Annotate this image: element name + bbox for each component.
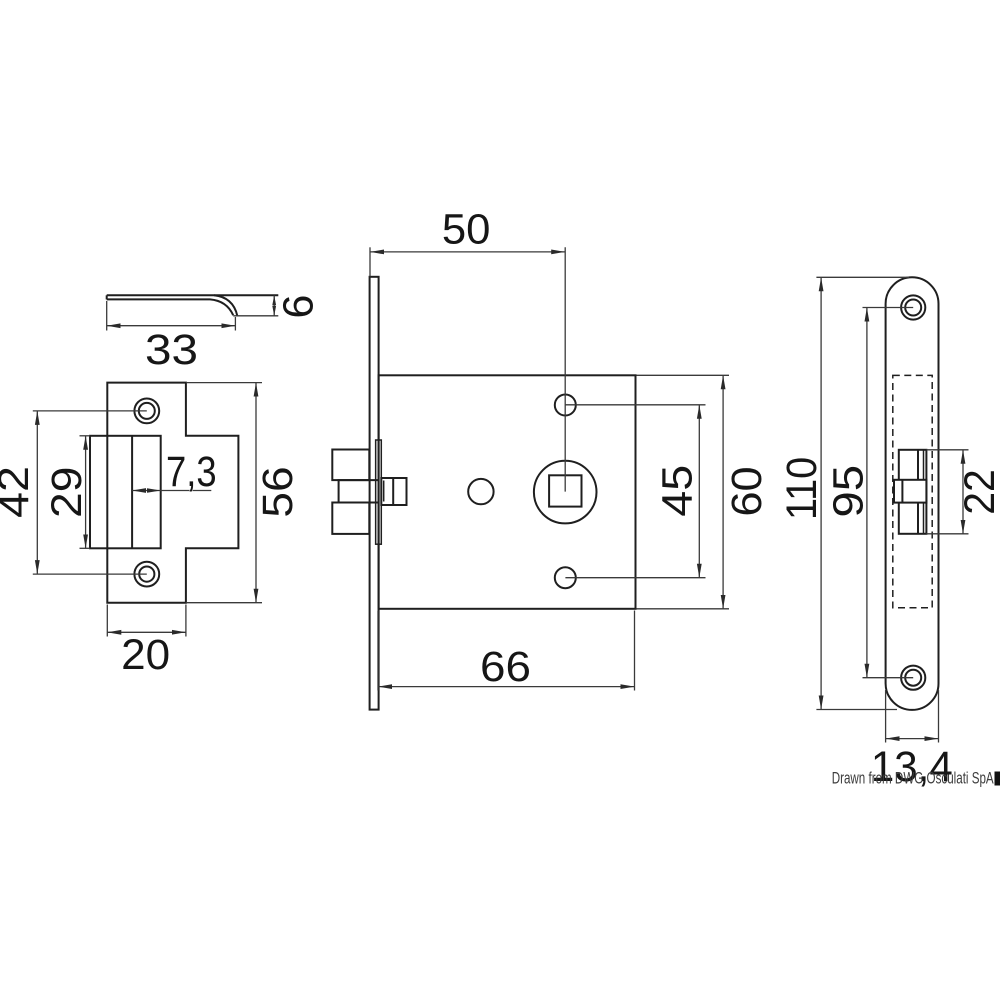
bolt tail neck line <box>383 481 385 502</box>
faceplate side view <box>370 277 379 710</box>
svg-text:95: 95 <box>825 465 873 518</box>
footer credit text <box>832 770 994 788</box>
dimension 56 extension bottom <box>186 602 262 604</box>
dimension 95 extension bottom <box>863 677 914 679</box>
lock body hidden outline (dashed) <box>893 375 932 607</box>
svg-text:50: 50 <box>442 206 491 254</box>
svg-text:45: 45 <box>654 465 702 517</box>
lip bottom surface line and inner bend curve <box>107 299 234 315</box>
bolt tail divider <box>392 478 394 505</box>
dimension 95 extension top <box>863 307 914 309</box>
dimension 66 line <box>378 686 635 688</box>
dimension 95 line <box>866 308 868 678</box>
svg-text:20: 20 <box>121 631 170 679</box>
dimension 6 line <box>272 295 276 316</box>
spindle square hole <box>549 475 581 506</box>
dimension 42 extension top <box>33 410 147 412</box>
dimension 33 extension left <box>106 301 108 331</box>
latch bolt middle block <box>339 480 379 502</box>
dimension 13,4 extension left <box>885 690 887 743</box>
dimension 60 extension top <box>637 374 730 376</box>
svg-text:29: 29 <box>43 467 91 518</box>
dimension 33 line <box>107 325 236 327</box>
dimension 60 text <box>723 466 771 516</box>
dimension 7,3 line <box>132 490 211 492</box>
dimension 22 text <box>956 469 1000 515</box>
dimension 29 extension bottom <box>80 547 91 549</box>
dimension 66 text <box>480 643 531 691</box>
dimension 29 text <box>43 467 91 518</box>
svg-text:110: 110 <box>778 457 826 520</box>
dimension 50 text <box>442 206 491 254</box>
fixing hole top <box>555 395 576 416</box>
dimension 66 extension right <box>634 611 636 691</box>
svg-text:66: 66 <box>480 643 531 691</box>
svg-text:7,3: 7,3 <box>166 448 217 496</box>
faceplate screw hole bottom inner <box>905 670 921 686</box>
dimension 6 text <box>274 295 322 319</box>
dimension 110 extension bottom <box>816 709 897 711</box>
dimension 20 extension right <box>185 605 187 637</box>
strike hole rectangle <box>90 436 161 549</box>
dimension 60 line <box>722 375 724 609</box>
lock case front wall strip <box>376 440 382 544</box>
stop pin hole <box>468 479 493 504</box>
dimension 95 text <box>825 465 873 518</box>
dimension 45 line <box>698 405 700 578</box>
dimension 13,4 text <box>871 743 953 791</box>
screw hole top inner <box>139 403 155 419</box>
svg-text:56: 56 <box>254 466 302 517</box>
dimension 50 line <box>370 251 565 253</box>
svg-text:42: 42 <box>0 466 38 518</box>
svg-text:Drawn from DWG Osculati SpA: Drawn from DWG Osculati SpA <box>832 770 994 788</box>
dimension 60 extension bottom <box>637 608 730 610</box>
strike tab fold line <box>131 436 133 549</box>
dimension 29 line <box>85 436 87 549</box>
dimension 110 extension top <box>816 276 909 278</box>
dimension 33 text <box>145 326 198 374</box>
fixing hole bottom <box>555 567 576 588</box>
screw hole bottom inner <box>139 567 154 582</box>
strike plate outline <box>107 383 238 603</box>
dimension 56 text <box>254 466 302 517</box>
dimension 50 extension left <box>369 247 371 276</box>
dimension 42 line <box>36 411 38 574</box>
dimension 29 extension top <box>80 435 91 437</box>
dimension 20 text <box>121 631 170 679</box>
latch bolt front outline <box>899 450 927 534</box>
faceplate screw hole bottom outer <box>901 666 925 690</box>
dimension 13,4 line <box>886 738 939 740</box>
latch bolt lower block <box>332 503 369 534</box>
lip top surface line <box>107 294 279 296</box>
svg-text:33: 33 <box>145 326 198 374</box>
latch bolt middle block front <box>894 480 926 503</box>
dimension 22 extension top <box>926 449 968 451</box>
latch bolt divider line 2 <box>923 450 925 534</box>
dimension 7,3 right arrow <box>147 488 161 493</box>
dimension 110 line <box>820 277 822 709</box>
svg-text:60: 60 <box>723 466 771 516</box>
dimension 33 extension right <box>234 317 236 331</box>
lip left end cap <box>106 295 108 299</box>
dimension 22 extension bottom <box>926 533 968 535</box>
dimension 45 extension bottom <box>565 577 705 579</box>
latch bolt middle block inner line <box>901 480 903 503</box>
svg-text:6: 6 <box>274 295 322 319</box>
dimension 50 extension to spindle center <box>564 247 566 491</box>
dimension 20 extension left <box>106 605 108 637</box>
dimension 22 line <box>962 450 964 534</box>
dimension 45 text <box>654 465 702 517</box>
dimension 56 extension top <box>186 382 262 384</box>
spindle boss circle <box>534 461 597 524</box>
dimension 42 text <box>0 466 38 518</box>
dimension 56 line <box>255 383 257 603</box>
bolt tail housing <box>381 478 406 505</box>
dimension 66 extension left <box>377 611 379 691</box>
lip outer bend curve <box>214 295 237 316</box>
dimension 7,3 text <box>166 448 217 496</box>
dimension 20 line <box>107 631 186 633</box>
screw hole top outer <box>134 399 159 424</box>
faceplate outline <box>886 277 939 710</box>
latch bolt divider line 1 <box>917 450 919 534</box>
dimension 42 extension bottom <box>33 573 147 575</box>
svg-text:22: 22 <box>956 469 1000 515</box>
lip tip bottom extension line <box>233 315 278 317</box>
faceplate screw hole top inner <box>905 300 921 316</box>
lock body rectangle <box>379 375 636 609</box>
footer cursor block <box>995 772 1000 786</box>
latch bolt upper block <box>332 450 369 481</box>
dimension 110 text <box>778 457 826 520</box>
faceplate screw hole top outer <box>901 295 925 319</box>
dimension 13,4 extension right <box>938 690 940 743</box>
screw hole bottom outer <box>134 562 159 587</box>
dimension 45 extension top <box>565 404 705 406</box>
